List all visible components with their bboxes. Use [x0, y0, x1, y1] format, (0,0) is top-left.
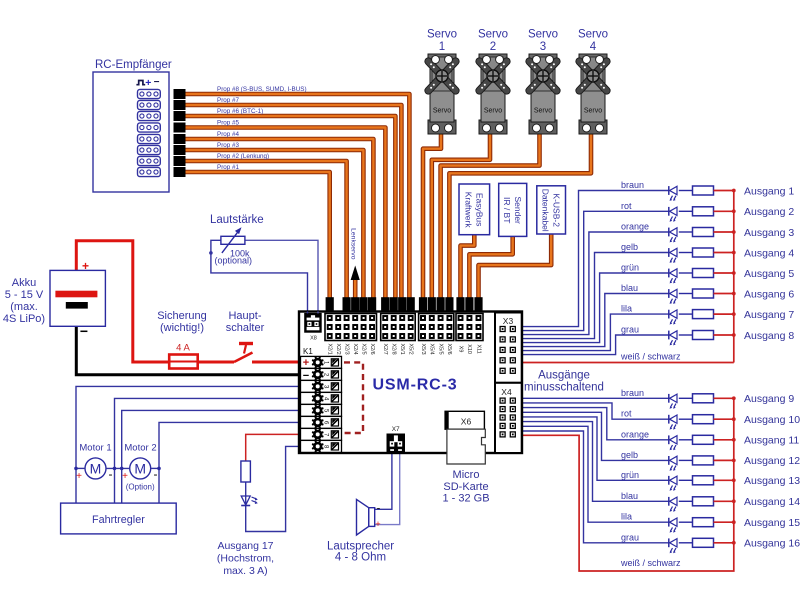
svg-text:1 - 32 GB: 1 - 32 GB: [442, 493, 489, 505]
svg-text:(Option): (Option): [126, 483, 155, 492]
svg-text:Servo: Servo: [427, 29, 457, 41]
svg-text:3: 3: [540, 41, 546, 53]
svg-text:K-USB-2: K-USB-2: [551, 193, 561, 227]
svg-text:+: +: [303, 357, 309, 369]
svg-text:Ausgang 1: Ausgang 1: [744, 185, 794, 197]
svg-text:USM-RC-3: USM-RC-3: [372, 377, 457, 394]
svg-text:minusschaltend: minusschaltend: [524, 382, 604, 394]
svg-text:4 - 8 Ohm: 4 - 8 Ohm: [335, 552, 386, 564]
svg-text:braun: braun: [621, 388, 644, 398]
svg-text:2: 2: [490, 41, 496, 53]
svg-text:Ausgang 8: Ausgang 8: [744, 330, 794, 342]
svg-text:braun: braun: [621, 180, 644, 190]
svg-text:X2/3: X2/3: [343, 344, 349, 355]
svg-text:M: M: [90, 461, 102, 477]
svg-text:Sicherung: Sicherung: [157, 310, 207, 322]
svg-text:Prop #3: Prop #3: [217, 142, 240, 149]
svg-text:Datenkabel: Datenkabel: [540, 189, 550, 232]
svg-text:X5/5: X5/5: [437, 344, 443, 355]
svg-text:weiß / schwarz: weiß / schwarz: [620, 352, 681, 362]
svg-text:X2/4: X2/4: [352, 344, 358, 355]
svg-text:Ausgang 2: Ausgang 2: [744, 206, 794, 218]
svg-text:X2/5: X2/5: [360, 344, 366, 355]
svg-text:orange: orange: [621, 222, 649, 232]
svg-text:-: -: [377, 503, 381, 515]
svg-text:(Hochstrom,: (Hochstrom,: [217, 553, 274, 565]
svg-text:Servo: Servo: [433, 108, 451, 115]
svg-text:Ausgang 13: Ausgang 13: [744, 475, 800, 487]
svg-text:Ausgang 17: Ausgang 17: [217, 540, 273, 552]
svg-text:5 - 15 V: 5 - 15 V: [5, 289, 44, 301]
svg-text:X5/2: X5/2: [408, 344, 414, 355]
svg-text:Servo: Servo: [484, 108, 502, 115]
svg-text:blau: blau: [621, 491, 638, 501]
svg-text:(optional): (optional): [215, 256, 253, 266]
svg-text:Lenkservo: Lenkservo: [349, 228, 356, 260]
svg-text:X5/3: X5/3: [420, 344, 426, 355]
svg-text:SD-Karte: SD-Karte: [443, 481, 488, 493]
svg-text:X2/2: X2/2: [335, 344, 341, 355]
svg-text:Servo: Servo: [478, 29, 508, 41]
svg-text:X2/7: X2/7: [382, 344, 388, 355]
svg-text:-: -: [154, 467, 158, 481]
svg-text:Ausgang 16: Ausgang 16: [744, 538, 800, 550]
svg-text:Prop #4: Prop #4: [217, 131, 240, 138]
svg-text:blau: blau: [621, 283, 638, 293]
svg-text:Prop #1: Prop #1: [217, 164, 240, 171]
svg-text:grau: grau: [621, 325, 639, 335]
svg-text:X4: X4: [501, 387, 512, 397]
svg-text:Kraftwerk: Kraftwerk: [464, 192, 474, 229]
svg-text:+: +: [76, 471, 82, 482]
svg-text:grün: grün: [621, 470, 639, 480]
svg-text:Ausgang 5: Ausgang 5: [744, 268, 794, 280]
svg-text:1: 1: [439, 41, 445, 53]
svg-text:Ausgang 9: Ausgang 9: [744, 393, 794, 405]
svg-text:lila: lila: [621, 304, 632, 314]
svg-text:IR / BT: IR / BT: [502, 197, 512, 223]
svg-text:+: +: [375, 519, 380, 529]
svg-text:grau: grau: [621, 532, 639, 542]
svg-text:Ausgang 15: Ausgang 15: [744, 517, 800, 529]
svg-text:+: +: [82, 259, 89, 273]
svg-text:Fahrtregler: Fahrtregler: [92, 514, 145, 526]
svg-text:Ausgang 3: Ausgang 3: [744, 227, 794, 239]
svg-text:+: +: [122, 471, 128, 482]
svg-text:4 A: 4 A: [176, 343, 190, 354]
svg-text:X9: X9: [457, 346, 463, 353]
svg-text:X5/1: X5/1: [399, 344, 405, 355]
svg-text:X11: X11: [475, 344, 481, 353]
svg-text:Lautstärke: Lautstärke: [210, 214, 264, 226]
svg-text:rot: rot: [621, 201, 632, 211]
svg-text:Ausgänge: Ausgänge: [538, 370, 590, 382]
svg-text:X8: X8: [310, 336, 317, 342]
svg-text:lila: lila: [621, 512, 632, 522]
svg-text:Prop #7: Prop #7: [217, 97, 240, 104]
svg-text:-: -: [109, 467, 113, 481]
svg-text:X3: X3: [503, 316, 514, 326]
svg-text:Servo: Servo: [578, 29, 608, 41]
svg-text:Ausgang 7: Ausgang 7: [744, 309, 794, 321]
svg-text:schalter: schalter: [226, 322, 265, 334]
svg-text:weiß / schwarz: weiß / schwarz: [620, 558, 681, 568]
svg-text:(wichtig!): (wichtig!): [160, 322, 204, 334]
svg-text:Micro: Micro: [453, 469, 480, 481]
svg-text:Akku: Akku: [12, 277, 36, 289]
svg-text:(max.: (max.: [10, 301, 38, 313]
svg-text:4: 4: [590, 41, 597, 53]
svg-text:−: −: [154, 77, 160, 88]
svg-text:Sender: Sender: [513, 196, 523, 224]
svg-text:gelb: gelb: [621, 450, 638, 460]
svg-text:rot: rot: [621, 409, 632, 419]
svg-text:K1: K1: [303, 347, 313, 356]
svg-text:orange: orange: [621, 429, 649, 439]
svg-text:Ausgang 4: Ausgang 4: [744, 247, 794, 259]
svg-text:Ausgang 12: Ausgang 12: [744, 455, 800, 467]
svg-text:Servo: Servo: [534, 108, 552, 115]
svg-text:max. 3 A): max. 3 A): [223, 565, 267, 577]
svg-text:Prop #5: Prop #5: [217, 120, 240, 127]
svg-text:X2/1: X2/1: [327, 344, 333, 355]
svg-text:Haupt-: Haupt-: [228, 310, 261, 322]
svg-text:X6: X6: [461, 417, 472, 427]
svg-text:gelb: gelb: [621, 242, 638, 252]
svg-text:Ausgang 10: Ausgang 10: [744, 414, 800, 426]
svg-text:X2/8: X2/8: [391, 344, 397, 355]
svg-text:Prop #6 (BTC-1): Prop #6 (BTC-1): [217, 108, 263, 115]
svg-text:Motor 1: Motor 1: [79, 443, 111, 454]
svg-text:M: M: [134, 461, 146, 477]
svg-text:X10: X10: [466, 344, 472, 354]
svg-text:Servo: Servo: [528, 29, 558, 41]
svg-text:X5/6: X5/6: [446, 344, 452, 355]
svg-text:X7: X7: [392, 426, 400, 433]
svg-text:4S LiPo): 4S LiPo): [3, 313, 45, 325]
svg-text:Prop #2 (Lenkung): Prop #2 (Lenkung): [217, 153, 269, 160]
svg-text:−: −: [303, 370, 309, 382]
svg-text:Ausgang 6: Ausgang 6: [744, 288, 794, 300]
svg-text:EasyBus: EasyBus: [475, 193, 485, 227]
svg-text:Ausgang 11: Ausgang 11: [744, 435, 799, 447]
svg-text:−: −: [80, 323, 88, 339]
svg-text:Motor 2: Motor 2: [124, 443, 156, 454]
svg-text:Servo: Servo: [584, 108, 602, 115]
svg-text:Ausgang 14: Ausgang 14: [744, 496, 800, 508]
svg-text:+: +: [145, 77, 151, 89]
svg-text:X5/4: X5/4: [429, 344, 435, 355]
svg-text:RC-Empfänger: RC-Empfänger: [95, 59, 172, 71]
svg-text:Prop #8 (S-BUS, SUMD, I-BUS): Prop #8 (S-BUS, SUMD, I-BUS): [217, 86, 307, 93]
svg-text:X2/6: X2/6: [369, 344, 375, 355]
svg-text:grün: grün: [621, 263, 639, 273]
